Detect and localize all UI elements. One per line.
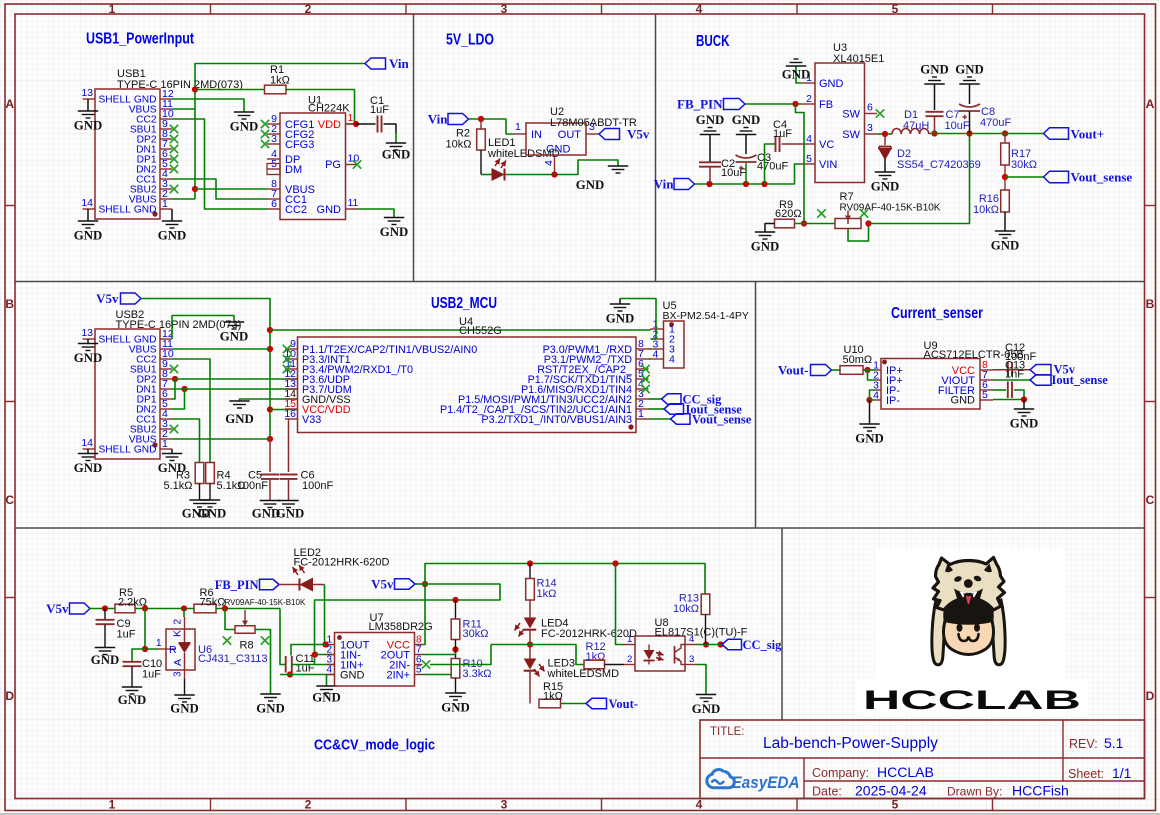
wire V5v flag to node bbox=[415, 583, 425, 585]
svg-text:V5v: V5v bbox=[371, 577, 394, 592]
svg-text:Vout-: Vout- bbox=[609, 697, 638, 711]
U3 left pins bbox=[802, 72, 815, 165]
capacitor C3 polarized bbox=[736, 152, 789, 184]
capacitor C1 bbox=[370, 95, 389, 133]
wire USB1 pin12 to ground bbox=[172, 99, 244, 112]
resistor R11 bbox=[451, 600, 488, 640]
resistor R10 bbox=[451, 658, 491, 693]
wire U1 VDD to C1 bbox=[356, 123, 376, 125]
svg-text:11: 11 bbox=[348, 197, 359, 209]
U2 pin 4 bbox=[543, 155, 555, 175]
junction at U2 GND pin4 bbox=[551, 171, 557, 177]
svg-text:Vout+: Vout+ bbox=[1071, 127, 1105, 142]
svg-text:30kΩ: 30kΩ bbox=[1011, 159, 1037, 171]
svg-text:XL4015E1: XL4015E1 bbox=[833, 53, 884, 65]
svg-text:FB_PIN: FB_PIN bbox=[215, 578, 259, 592]
wire IP+ tie bbox=[868, 370, 876, 380]
wire USB1 pin11 VBUS to Vin net bbox=[172, 108, 195, 110]
IC U3 XL4015E1 body bbox=[815, 42, 884, 183]
wire to Vout_sense flag bbox=[1005, 176, 1044, 178]
junction at D2 branch bbox=[882, 131, 888, 137]
junction V5v at VCC row bbox=[267, 406, 273, 412]
wire Vin rail to U3 VIN bbox=[695, 164, 803, 184]
svg-text:GND: GND bbox=[134, 445, 157, 456]
potentiometer R7 RV09AF bbox=[835, 191, 941, 241]
wire USB2 CC2 to R4 bbox=[172, 359, 210, 463]
svg-text:16: 16 bbox=[284, 408, 296, 420]
U4 left pin names bbox=[302, 344, 477, 426]
frame column ticks bottom bbox=[211, 799, 993, 811]
svg-text:CH224K: CH224K bbox=[308, 103, 350, 115]
svg-text:CH552G: CH552G bbox=[459, 325, 502, 337]
wire node to U7 2OUT bbox=[423, 652, 456, 655]
svg-text:620Ω: 620Ω bbox=[775, 208, 802, 220]
wire node to LED4 leg bbox=[491, 644, 530, 646]
net flag Vout- cc-cv bbox=[586, 697, 638, 711]
section divider vertical USB1/5V_LDO bbox=[413, 14, 415, 282]
net flag V5v cc-cv mid bbox=[371, 577, 415, 592]
junction lower rail bbox=[287, 671, 293, 677]
ground above C2 bbox=[696, 113, 724, 162]
svg-text:5: 5 bbox=[416, 665, 422, 676]
svg-text:1: 1 bbox=[627, 634, 632, 645]
logo mascot cat in wolf hat bbox=[932, 558, 1005, 665]
U1 left pin names bbox=[285, 119, 315, 216]
svg-text:SW: SW bbox=[842, 108, 860, 120]
svg-text:IN: IN bbox=[531, 129, 542, 141]
ground at R10 bbox=[441, 693, 469, 715]
junction U10 to IP+ bbox=[864, 367, 870, 373]
wire IP- tie bbox=[870, 390, 876, 400]
wire Vin to U2 IN bbox=[469, 119, 514, 134]
svg-text:1: 1 bbox=[162, 198, 168, 210]
wire ground to U5 pin2 bbox=[620, 299, 656, 340]
svg-text:Drawn By:: Drawn By: bbox=[947, 785, 1002, 799]
resistor R14 bbox=[526, 564, 557, 601]
U7 2IN- no-connect X bbox=[422, 660, 430, 668]
resistor R15 bbox=[539, 681, 563, 708]
svg-text:4: 4 bbox=[873, 390, 879, 402]
svg-text:14: 14 bbox=[81, 437, 93, 449]
resistor R16 bbox=[973, 190, 1009, 231]
U4 no-connect X pins left bbox=[283, 345, 291, 373]
junction at U1 VDD pin bbox=[353, 121, 359, 127]
resistor R4 bbox=[206, 463, 246, 501]
svg-text:GND: GND bbox=[74, 119, 102, 133]
USB2 pin names bbox=[99, 335, 157, 456]
svg-text:GND: GND bbox=[576, 178, 604, 192]
wire R15 to Vout- bbox=[561, 703, 587, 705]
svg-text:5.1: 5.1 bbox=[1104, 735, 1124, 751]
svg-text:BX-PM2.54-1-4PY: BX-PM2.54-1-4PY bbox=[663, 310, 749, 322]
svg-text:10kΩ: 10kΩ bbox=[673, 603, 699, 615]
title block logo cell divider bbox=[803, 758, 805, 799]
capacitor C13 bbox=[1005, 360, 1025, 381]
wire U8 pin3 to ground bbox=[697, 665, 707, 695]
svg-text:V5v: V5v bbox=[627, 127, 650, 142]
ground at C1 bbox=[382, 143, 410, 162]
R7 terminal X marks bbox=[817, 209, 868, 217]
LED LED1 whiteLEDSMD bbox=[481, 137, 560, 181]
junction R13 bottom bbox=[703, 641, 709, 647]
resistor R13 bbox=[673, 593, 710, 645]
net flag V5v cc-cv left bbox=[46, 601, 90, 616]
wire U8 pin4 to CC_sig bbox=[697, 644, 723, 646]
ground at R4 bbox=[198, 500, 226, 521]
svg-text:100nF: 100nF bbox=[237, 480, 268, 492]
wire USB2 VBUS pin11 to V5v bbox=[172, 348, 270, 350]
junction at R17 bbox=[1002, 130, 1008, 136]
svg-text:CC&CV_mode_logic: CC&CV_mode_logic bbox=[314, 738, 435, 754]
wire U9 VCC to V5v flag bbox=[993, 369, 1030, 371]
inductor D1 47uH bbox=[892, 109, 929, 134]
svg-text:FB: FB bbox=[819, 99, 833, 111]
wire C12 to ground net bbox=[1014, 390, 1024, 400]
ground at USB2 pin 1 bbox=[158, 449, 186, 475]
wire C11 to U7 1IN+ bbox=[292, 664, 335, 666]
net flag Iout_sense MCU bbox=[664, 403, 742, 417]
connector USB1 TYPE-C body bbox=[95, 68, 243, 219]
title block row divider 2 bbox=[804, 780, 1145, 782]
svg-text:VC: VC bbox=[819, 139, 834, 151]
svg-text:2: 2 bbox=[627, 654, 632, 665]
svg-text:6: 6 bbox=[867, 102, 873, 114]
net flag V5v current sense bbox=[1030, 363, 1076, 377]
net flag Vin output bbox=[365, 56, 410, 71]
svg-text:GND: GND bbox=[170, 702, 198, 716]
svg-text:1uF: 1uF bbox=[142, 669, 161, 681]
svg-text:A: A bbox=[172, 659, 184, 666]
svg-text:4: 4 bbox=[806, 133, 812, 145]
svg-text:1kΩ: 1kΩ bbox=[543, 691, 563, 703]
svg-text:10kΩ: 10kΩ bbox=[446, 139, 472, 151]
svg-text:3: 3 bbox=[271, 133, 277, 145]
ground above C7 bbox=[920, 63, 948, 111]
wire USB2 VBUS pin2 to V5v bbox=[172, 438, 270, 440]
junction at U7 1IN- bbox=[312, 651, 318, 657]
ground at U4 GND VSS bbox=[225, 399, 297, 426]
wire Vin vertical trunk bbox=[195, 64, 365, 200]
svg-text:B: B bbox=[5, 297, 14, 311]
net flag CC_sig cc-cv bbox=[722, 638, 782, 652]
svg-text:4: 4 bbox=[326, 665, 332, 676]
wire R6 to C11 node bbox=[216, 608, 280, 610]
svg-text:5V_LDO: 5V_LDO bbox=[446, 32, 494, 49]
svg-text:FB_PIN: FB_PIN bbox=[677, 97, 723, 112]
svg-text:GND: GND bbox=[317, 204, 342, 216]
ground at USB2 pin 12 bbox=[220, 322, 248, 344]
svg-text:10uF: 10uF bbox=[945, 120, 970, 132]
wire SW output rail to Vout+ bbox=[929, 133, 1044, 135]
svg-text:FC-2012HRK-620D: FC-2012HRK-620D bbox=[541, 628, 637, 640]
svg-text:1uF: 1uF bbox=[773, 128, 792, 140]
svg-text:GND: GND bbox=[134, 205, 157, 216]
frame column ticks top bbox=[211, 4, 993, 14]
junction R11 R10 2OUT node bbox=[452, 646, 458, 652]
net flag Vin buck input bbox=[654, 177, 695, 192]
logo wordmark background bbox=[857, 679, 1088, 716]
svg-text:SHELL: SHELL bbox=[99, 445, 132, 456]
svg-text:GND: GND bbox=[74, 229, 102, 243]
svg-text:4: 4 bbox=[669, 354, 675, 366]
frame row letters right bbox=[1146, 97, 1155, 703]
ground at R9 bbox=[751, 224, 779, 254]
svg-text:Date:: Date: bbox=[812, 785, 842, 799]
section divider horizontal middle row bottom bbox=[15, 527, 1145, 529]
U7 left pins bbox=[326, 635, 334, 676]
frame column numbers bottom bbox=[109, 798, 899, 812]
U4 no-connect X pins right bbox=[641, 365, 649, 393]
svg-text:GND: GND bbox=[871, 180, 899, 194]
svg-text:3: 3 bbox=[689, 654, 694, 665]
junction DP2 tie bbox=[172, 376, 178, 382]
wire node to R12 bbox=[530, 645, 584, 665]
header U5 BX-PM2.54-1-4PY body bbox=[663, 300, 749, 368]
U5 pins 1-4 bbox=[651, 319, 664, 361]
svg-text:D: D bbox=[5, 689, 14, 703]
svg-text:GND: GND bbox=[158, 229, 186, 243]
svg-text:10: 10 bbox=[348, 153, 360, 165]
svg-text:6: 6 bbox=[271, 198, 277, 210]
ground at U9 IP- bbox=[855, 400, 883, 446]
potentiometer R8 bbox=[225, 598, 306, 652]
svg-text:1kΩ: 1kΩ bbox=[270, 75, 290, 87]
svg-text:4: 4 bbox=[689, 634, 694, 645]
net flag Vout- current sense bbox=[778, 363, 832, 378]
USB1 left pins 13 14 bbox=[81, 87, 95, 209]
wire FB_PIN to LED2 bbox=[279, 584, 299, 586]
IC U4 CH552G body bbox=[298, 316, 637, 433]
svg-text:2025-04-24: 2025-04-24 bbox=[855, 783, 927, 799]
svg-text:2: 2 bbox=[806, 93, 812, 105]
junction on Vin trunk at R1 row bbox=[192, 86, 198, 92]
net flag V5v MCU bbox=[96, 291, 141, 306]
wire U5 pin1 junction bbox=[650, 329, 652, 330]
svg-text:V5v: V5v bbox=[96, 291, 119, 306]
USB1 right pins 12..1 bbox=[160, 88, 174, 210]
wire U4 P3.1 to U5 pin4 bbox=[649, 358, 651, 360]
junction V5v to U5 wire bbox=[267, 327, 273, 333]
svg-text:1: 1 bbox=[515, 121, 521, 133]
svg-text:10uF: 10uF bbox=[721, 167, 746, 179]
wire U7 GND row bbox=[280, 674, 327, 676]
svg-text:GND: GND bbox=[256, 702, 284, 716]
junction U9 ground net bbox=[1021, 396, 1027, 402]
svg-text:GND: GND bbox=[220, 330, 248, 344]
U9 left pins bbox=[873, 360, 881, 402]
resistor R12 bbox=[584, 641, 606, 669]
junction C3 on Vin rail bbox=[743, 181, 749, 187]
svg-text:GND: GND bbox=[920, 63, 948, 77]
svg-text:Company:: Company: bbox=[812, 766, 869, 780]
svg-text:GND: GND bbox=[230, 120, 258, 134]
U4 left pins bbox=[284, 338, 297, 420]
svg-text:Iout_sense: Iout_sense bbox=[1052, 373, 1109, 387]
wire USB1 CC2 to U1 CC2 bbox=[172, 119, 267, 209]
wire R5 to R6 bbox=[135, 608, 194, 610]
svg-text:GND: GND bbox=[692, 702, 720, 716]
wire R8 to ground bbox=[255, 630, 271, 695]
wire U4 VCC to V5v bbox=[270, 409, 298, 411]
ground at D2 bbox=[871, 172, 899, 194]
R8 no-connect X marks bbox=[223, 636, 269, 644]
junction CC_sig node bbox=[717, 641, 723, 647]
junction at C7 bbox=[931, 130, 937, 136]
U9 right pins bbox=[980, 359, 993, 401]
svg-text:1: 1 bbox=[109, 2, 116, 16]
svg-text:HCCLAB: HCCLAB bbox=[877, 764, 934, 780]
svg-text:IP-: IP- bbox=[886, 395, 900, 407]
svg-text:1nF: 1nF bbox=[1005, 369, 1024, 381]
USB2 left pins 13 14 bbox=[81, 327, 95, 449]
svg-text:CC_sig: CC_sig bbox=[743, 638, 783, 652]
svg-text:Vin: Vin bbox=[389, 56, 410, 71]
svg-text:OUT: OUT bbox=[558, 129, 582, 141]
wire FB net down to divider tap bbox=[796, 104, 805, 224]
svg-text:GND: GND bbox=[1010, 417, 1038, 431]
LED LED3 whiteLEDSMD bbox=[524, 645, 619, 704]
svg-text:GND: GND bbox=[819, 78, 844, 90]
net flag V5v LDO output bbox=[599, 127, 650, 142]
net flag FB_PIN buck bbox=[677, 97, 745, 112]
svg-text:REV:: REV: bbox=[1069, 737, 1098, 751]
svg-text:1/1: 1/1 bbox=[1112, 765, 1132, 781]
wire Vin trunk to U1 VBUS pin8 bbox=[195, 188, 267, 190]
svg-text:GND: GND bbox=[74, 461, 102, 475]
net flag Vout_sense buck bbox=[1044, 170, 1133, 185]
svg-text:3.3kΩ: 3.3kΩ bbox=[463, 668, 492, 680]
title block row divider 1 bbox=[700, 757, 1145, 759]
wire V5v to U5 pin1 bbox=[270, 329, 651, 331]
svg-text:1: 1 bbox=[162, 438, 168, 450]
junction at FB net bbox=[792, 101, 798, 107]
svg-text:D: D bbox=[1146, 689, 1155, 703]
junction R11 top bbox=[452, 597, 458, 603]
resistor R2 bbox=[446, 119, 486, 151]
capacitor C5 bbox=[237, 439, 279, 501]
U1 right pins bbox=[346, 112, 360, 209]
resistor R1 bbox=[265, 64, 290, 94]
svg-text:Vin: Vin bbox=[428, 112, 449, 127]
wire USB1 pin2 VBUS bbox=[172, 198, 195, 200]
svg-text:DM: DM bbox=[285, 164, 302, 176]
svg-text:1: 1 bbox=[638, 408, 644, 420]
junction R8 branch bbox=[222, 605, 228, 611]
frame row ticks left bbox=[5, 206, 15, 598]
svg-text:5: 5 bbox=[806, 153, 812, 165]
svg-text:Vin: Vin bbox=[654, 177, 675, 192]
wire FILTER to C12 bbox=[993, 389, 1006, 391]
wire U9 GND bbox=[993, 399, 1024, 401]
opamp U7 LM358DR2G body bbox=[335, 612, 433, 686]
wire C11 node down bbox=[280, 609, 285, 665]
ground above C3 bbox=[732, 113, 760, 154]
U1 pin5 DM highlight box bbox=[267, 164, 280, 175]
svg-text:GND: GND bbox=[751, 240, 779, 254]
net flag Vout_sense MCU bbox=[671, 413, 752, 427]
svg-text:GND: GND bbox=[198, 507, 226, 521]
ground at U3 pin1 bbox=[782, 59, 810, 83]
svg-text:Current_senser: Current_senser bbox=[891, 305, 983, 322]
wire USB2 pin12 to ground bbox=[172, 316, 234, 340]
U1 no-connect X pins CFG1 CFG2 CFG3 bbox=[261, 120, 269, 148]
svg-text:GND: GND bbox=[340, 669, 365, 681]
wire LED2 cathode to opamp out bbox=[313, 585, 325, 645]
wire R1 to U1 VDD bbox=[286, 90, 355, 125]
wire DP2 to U4 UDP bbox=[175, 378, 298, 380]
svg-text:C: C bbox=[1146, 493, 1155, 507]
wire LED1 cathode to U2 GND and ground bbox=[506, 160, 619, 175]
junction R14 top rail bbox=[527, 560, 533, 566]
junction at U7 1OUT bbox=[322, 641, 328, 647]
svg-text:Sheet:: Sheet: bbox=[1068, 767, 1104, 781]
wire V5v to U7 VCC bbox=[423, 584, 426, 645]
svg-text:1: 1 bbox=[109, 798, 116, 812]
ground at USB1 pin 1 bbox=[158, 209, 186, 243]
svg-text:FC-2012HRK-620D: FC-2012HRK-620D bbox=[294, 557, 390, 569]
junction U8 pin1 rail bbox=[612, 560, 618, 566]
svg-text:C: C bbox=[5, 493, 14, 507]
svg-text:USB2_MCU: USB2_MCU bbox=[431, 295, 497, 312]
ground at U5 pin2 bbox=[606, 299, 634, 326]
frame column numbers top bbox=[109, 2, 899, 16]
U3 no-connect X pin SW6 bbox=[876, 109, 884, 117]
wire down to R8 bbox=[225, 609, 235, 630]
U4 pin1 marker dot bbox=[628, 424, 633, 429]
wire V5v to R5 bbox=[90, 608, 115, 610]
schottky diode D2 bbox=[879, 134, 981, 172]
wire C1 to ground bbox=[384, 124, 397, 143]
svg-text:100nF: 100nF bbox=[1005, 351, 1036, 363]
capacitor C2 bbox=[699, 158, 746, 184]
wire Vin rail to C4 bbox=[765, 144, 776, 184]
ground at USB1 pin 13 bbox=[74, 99, 102, 133]
net flag FB_PIN cc-cv bbox=[215, 578, 279, 592]
USB2 no-connect X pins SBU1 SBU2 bbox=[170, 365, 178, 433]
EasyEDA logo cloud bbox=[707, 770, 735, 788]
svg-text:R: R bbox=[169, 644, 177, 656]
svg-text:EasyEDA: EasyEDA bbox=[732, 774, 800, 792]
resistor R9 bbox=[775, 199, 802, 228]
svg-text:470uF: 470uF bbox=[980, 117, 1011, 129]
capacitor C6 bbox=[280, 420, 334, 501]
svg-text:3: 3 bbox=[867, 122, 873, 134]
optocoupler U8 EL817S1 body bbox=[624, 617, 748, 671]
ground at R16 bbox=[991, 231, 1019, 253]
svg-text:1uF: 1uF bbox=[370, 104, 389, 116]
U4 right pins bbox=[636, 338, 649, 420]
svg-text:A: A bbox=[5, 97, 14, 111]
wire DP1 tie down bbox=[172, 379, 175, 399]
USB2 right pins 12..1 bbox=[160, 328, 174, 450]
svg-text:VDD: VDD bbox=[318, 119, 341, 131]
section divider horizontal top row bottom bbox=[15, 281, 1145, 283]
junction U6 R branch bbox=[142, 605, 148, 611]
svg-text:VIN: VIN bbox=[819, 159, 837, 171]
svg-text:GND: GND bbox=[91, 653, 119, 667]
capacitor C12 bbox=[1005, 342, 1036, 398]
ground at C6 bbox=[276, 501, 304, 521]
wire V5v right branch bbox=[425, 584, 500, 600]
title block outer bbox=[700, 720, 1145, 799]
wire V5v trunk MCU bbox=[141, 299, 270, 440]
svg-text:GND: GND bbox=[380, 225, 408, 239]
junction U6 cathode branch bbox=[181, 605, 187, 611]
svg-text:50mΩ: 50mΩ bbox=[843, 354, 873, 366]
svg-text:RV09AF-40-15K-B10K: RV09AF-40-15K-B10K bbox=[840, 203, 941, 214]
svg-text:Vout_sense: Vout_sense bbox=[692, 413, 752, 427]
wire rail to U8 pin1 bbox=[616, 564, 625, 645]
